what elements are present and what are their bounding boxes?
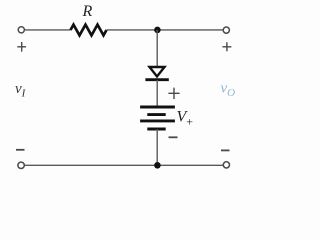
plus sign left input	[17, 42, 26, 52]
wire battery to bottom	[156, 129, 158, 165]
terminal bottom-right	[223, 162, 229, 168]
terminal top-right	[223, 27, 229, 33]
plus sign above battery	[168, 88, 179, 99]
node a (top junction dot)	[154, 27, 161, 34]
minus sign right	[221, 149, 230, 151]
diode (triangle)	[150, 67, 165, 77]
terminal bottom-left	[18, 162, 24, 168]
battery V+ plate 1 (long)	[140, 106, 175, 109]
bottom wire	[25, 164, 223, 166]
wire diode to battery	[156, 80, 158, 107]
minus sign left	[16, 149, 25, 151]
wire top-right segment	[107, 29, 223, 31]
battery plate 3 (long)	[140, 119, 175, 122]
battery plate 4 (short)	[147, 128, 165, 131]
wire middle branch upper	[156, 30, 158, 67]
wire top-left segment	[25, 29, 71, 31]
node bottom junction dot	[154, 162, 161, 169]
resistor R	[71, 25, 107, 36]
svg-text:R: R	[82, 3, 93, 20]
diode cathode bar	[145, 78, 168, 81]
plus sign right output	[222, 42, 231, 51]
minus sign below battery	[169, 136, 178, 138]
terminal top-left	[18, 27, 24, 33]
battery plate 2 (short)	[147, 113, 165, 116]
